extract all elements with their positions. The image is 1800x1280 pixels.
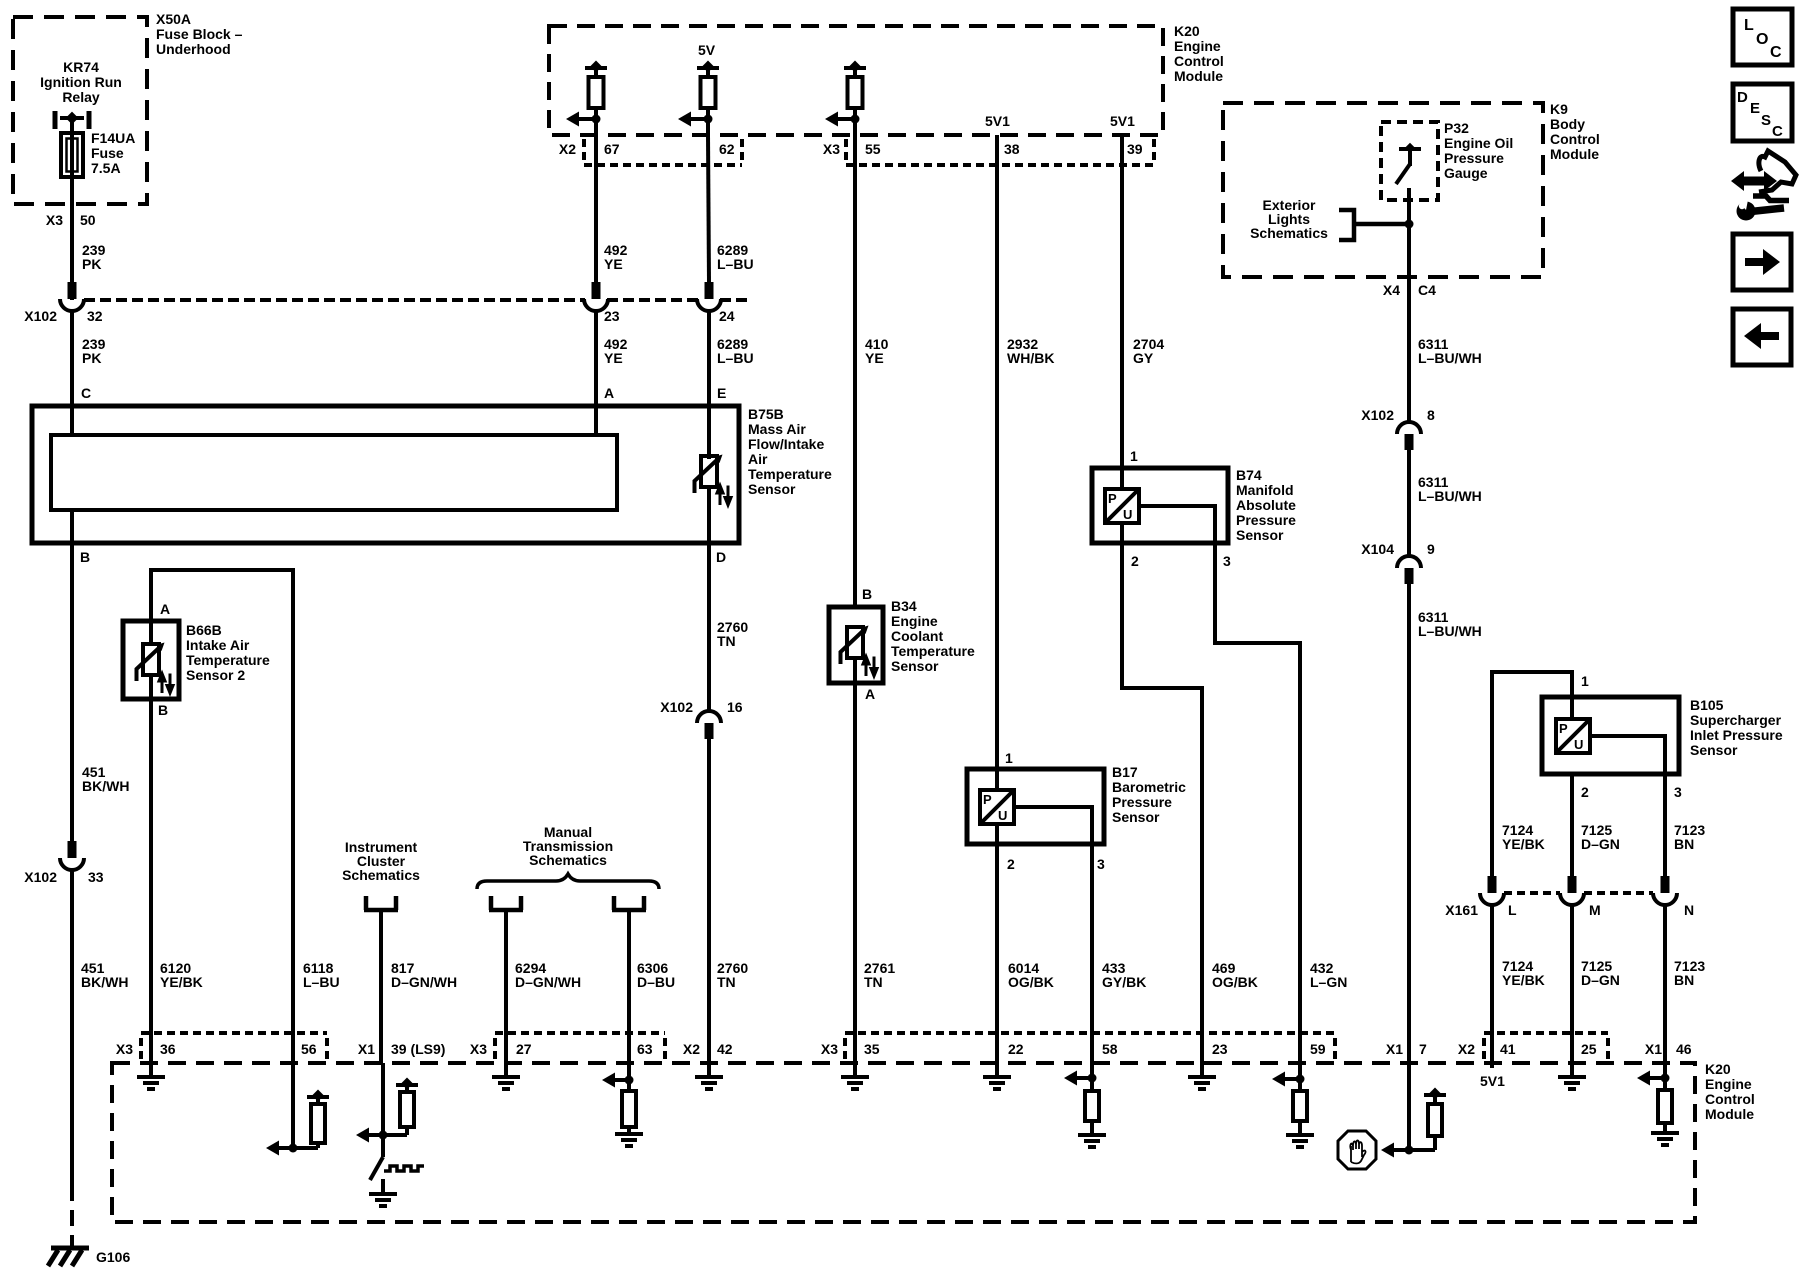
svg-text:X2: X2: [1458, 1041, 1475, 1057]
wire 7123 BN upper: [1663, 774, 1667, 877]
svg-text:X2: X2: [559, 141, 576, 157]
svg-text:Control: Control: [1174, 53, 1224, 69]
wire 451 BK/WH lower: [70, 870, 74, 1185]
ECM pull-up resistor at x=855: [844, 61, 866, 124]
svg-text:42: 42: [717, 1041, 733, 1057]
svg-text:D–GN/WH: D–GN/WH: [391, 974, 457, 990]
svg-text:TN: TN: [717, 974, 736, 990]
wire B17 internal to pin 3: [1014, 807, 1092, 844]
svg-text:X3: X3: [823, 141, 840, 157]
wire 2760 TN lower: [707, 738, 711, 1063]
svg-text:Sensor 2: Sensor 2: [186, 667, 245, 683]
wire B75B pin B stub: [70, 510, 74, 543]
junction dot: [1405, 220, 1414, 229]
svg-text:35: 35: [864, 1041, 880, 1057]
wire 6289 L-BU upper: [708, 135, 709, 283]
svg-text:7: 7: [1419, 1041, 1427, 1057]
resistor and ground at pin 58: [1078, 1063, 1106, 1147]
svg-text:Supercharger: Supercharger: [1690, 712, 1782, 728]
wire 469 OG/BK from B74 pin 2: [1122, 523, 1202, 1063]
svg-text:22: 22: [1008, 1041, 1024, 1057]
svg-text:X104: X104: [1361, 541, 1394, 557]
svg-text:33: 33: [88, 869, 104, 885]
svg-text:D–GN: D–GN: [1581, 972, 1620, 988]
svg-text:59: 59: [1310, 1041, 1326, 1057]
svg-text:X102: X102: [1361, 407, 1394, 423]
wire 432 L-GN from B74 pin 3: [1215, 543, 1300, 1063]
svg-text:5V1: 5V1: [985, 113, 1010, 129]
connector X102 pin 33: [60, 841, 84, 870]
svg-text:L–BU: L–BU: [717, 256, 754, 272]
svg-text:55: 55: [865, 141, 881, 157]
svg-text:D–BU: D–BU: [637, 974, 675, 990]
svg-text:Pressure: Pressure: [1236, 512, 1296, 528]
svg-text:Barometric: Barometric: [1112, 779, 1186, 795]
wire B105 internal to pin 3: [1590, 736, 1665, 774]
ground at pin 25: [1570, 1063, 1574, 1077]
svg-text:X102: X102: [660, 699, 693, 715]
wire 410 YE: [853, 135, 857, 607]
icon arrow right box: [1733, 234, 1791, 290]
wire 2761 TN: [853, 683, 857, 1063]
svg-text:B17: B17: [1112, 764, 1138, 780]
wire 6311 upper: [1407, 300, 1411, 421]
svg-text:39: 39: [1127, 141, 1143, 157]
svg-text:TN: TN: [717, 633, 736, 649]
svg-text:36: 36: [160, 1041, 176, 1057]
svg-text:GY: GY: [1133, 350, 1154, 366]
pull-up, switch and ground at pin 39 LS9: [379, 1063, 419, 1157]
module K20 ECM top dashed box: [549, 26, 1163, 135]
svg-text:B74: B74: [1236, 467, 1262, 483]
svg-text:B66B: B66B: [186, 622, 222, 638]
svg-text:Sensor: Sensor: [1690, 742, 1738, 758]
wire 492 YE upper: [594, 135, 598, 283]
svg-text:7.5A: 7.5A: [91, 160, 121, 176]
svg-text:L–BU/WH: L–BU/WH: [1418, 488, 1482, 504]
svg-text:OG/BK: OG/BK: [1008, 974, 1054, 990]
svg-text:Module: Module: [1550, 146, 1599, 162]
sensor B74 box: [1092, 468, 1228, 543]
svg-text:Underhood: Underhood: [156, 41, 231, 57]
wire thermistor to pin D: [707, 487, 711, 543]
connector X161 pin L: [1480, 876, 1504, 905]
svg-text:PK: PK: [82, 256, 101, 272]
svg-text:Engine: Engine: [891, 613, 938, 629]
wire 6120 YE/BK: [149, 699, 153, 1063]
icon arrow left box: [1733, 309, 1791, 365]
wire B74 internal to pin 3: [1139, 506, 1215, 543]
svg-text:Temperature: Temperature: [891, 643, 975, 659]
wire fuse to X3:50: [70, 177, 74, 300]
svg-text:Engine Oil: Engine Oil: [1444, 135, 1513, 151]
svg-text:38: 38: [1004, 141, 1020, 157]
wire 2760 TN upper: [707, 543, 711, 711]
svg-text:WH/BK: WH/BK: [1007, 350, 1054, 366]
svg-text:YE: YE: [865, 350, 884, 366]
gauge P32 dashed box: [1381, 122, 1438, 200]
svg-text:Flow/Intake: Flow/Intake: [748, 436, 824, 452]
svg-text:C: C: [1772, 123, 1783, 140]
svg-text:Sensor: Sensor: [748, 481, 796, 497]
svg-text:K20: K20: [1705, 1061, 1731, 1077]
svg-text:2: 2: [1007, 856, 1015, 872]
svg-text:L–GN: L–GN: [1310, 974, 1347, 990]
wire 2704 GY: [1120, 135, 1124, 468]
wire 7123 BN lower: [1663, 905, 1667, 1063]
svg-text:U: U: [1574, 737, 1583, 752]
svg-text:39 (LS9): 39 (LS9): [391, 1041, 445, 1057]
wire 6289 L-BU to pin E: [707, 311, 711, 459]
svg-text:U: U: [998, 808, 1007, 823]
ground at pin 27: [504, 1063, 508, 1077]
svg-text:PK: PK: [82, 350, 101, 366]
wire B105 pin 1 loop: [1492, 672, 1572, 877]
svg-text:5V1: 5V1: [1480, 1073, 1505, 1089]
connector X102 pin 23: [584, 282, 608, 311]
svg-text:Control: Control: [1705, 1091, 1755, 1107]
pressure sensor symbol B105: [1570, 697, 1574, 719]
svg-text:YE: YE: [604, 350, 623, 366]
svg-text:58: 58: [1102, 1041, 1118, 1057]
off-page bracket instrument cluster: [364, 896, 398, 910]
svg-text:P: P: [1108, 491, 1117, 506]
svg-text:D–GN: D–GN: [1581, 836, 1620, 852]
svg-text:BN: BN: [1674, 836, 1694, 852]
svg-text:X1: X1: [358, 1041, 375, 1057]
svg-text:OG/BK: OG/BK: [1212, 974, 1258, 990]
wire gauge to X4:C4: [1407, 188, 1411, 300]
svg-text:YE/BK: YE/BK: [1502, 972, 1545, 988]
svg-text:B105: B105: [1690, 697, 1724, 713]
svg-text:B: B: [158, 702, 168, 718]
stop hand symbol: [1338, 1131, 1376, 1169]
svg-text:U: U: [1123, 507, 1132, 522]
sensor B17 box: [967, 769, 1104, 844]
ECM output arrow at x=708: [678, 112, 708, 127]
wire 6311 lower: [1407, 583, 1411, 1150]
svg-text:X1: X1: [1645, 1041, 1662, 1057]
svg-text:41: 41: [1500, 1041, 1516, 1057]
svg-text:D: D: [1737, 89, 1748, 106]
svg-text:3: 3: [1223, 553, 1231, 569]
svg-text:YE: YE: [604, 256, 623, 272]
svg-text:C4: C4: [1418, 282, 1436, 298]
sensor B105 box: [1542, 697, 1679, 774]
svg-text:Control: Control: [1550, 131, 1600, 147]
off-page bracket 6306: [612, 896, 646, 910]
svg-text:63: 63: [637, 1041, 653, 1057]
svg-text:BK/WH: BK/WH: [82, 778, 129, 794]
svg-text:Module: Module: [1705, 1106, 1754, 1122]
svg-text:3: 3: [1674, 784, 1682, 800]
svg-text:1: 1: [1130, 448, 1138, 464]
svg-text:Absolute: Absolute: [1236, 497, 1296, 513]
svg-text:KR74: KR74: [63, 59, 99, 75]
svg-text:S: S: [1761, 112, 1771, 129]
svg-text:BK/WH: BK/WH: [81, 974, 128, 990]
sensor B75B element box: [51, 435, 617, 510]
module K9 BCM dashed box: [1223, 103, 1543, 277]
svg-text:67: 67: [604, 141, 620, 157]
svg-text:32: 32: [87, 308, 103, 324]
svg-text:Engine: Engine: [1705, 1076, 1752, 1092]
svg-text:E: E: [1750, 100, 1760, 117]
svg-text:N: N: [1684, 902, 1694, 918]
svg-text:L–BU/WH: L–BU/WH: [1418, 623, 1482, 639]
svg-text:Schematics: Schematics: [1250, 225, 1328, 241]
icon connector repair: [1731, 151, 1796, 221]
svg-text:Intake Air: Intake Air: [186, 637, 250, 653]
svg-text:D: D: [716, 549, 726, 565]
ground at pin 22: [995, 1063, 999, 1077]
svg-text:Sensor: Sensor: [891, 658, 939, 674]
wire 451 BK/WH upper: [70, 543, 74, 842]
pull-up and stop symbol at pin 7: [1405, 1088, 1447, 1155]
svg-text:YE/BK: YE/BK: [1502, 836, 1545, 852]
wire 433 GY/BK: [1090, 844, 1094, 1063]
svg-text:Module: Module: [1174, 68, 1223, 84]
svg-text:X102: X102: [24, 869, 57, 885]
svg-text:K9: K9: [1550, 101, 1568, 117]
wire 7124 YE/BK lower: [1490, 905, 1494, 1063]
svg-text:X50A: X50A: [156, 11, 191, 27]
wire 6014 OG/BK: [995, 824, 999, 1063]
connector bus X102 dashed line: [84, 298, 748, 302]
svg-text:B: B: [862, 586, 872, 602]
svg-text:23: 23: [604, 308, 620, 324]
gauge symbol P32: [1396, 143, 1421, 184]
switch blade at pin 39 LS9: [370, 1157, 383, 1180]
connector X104 pin 9: [1397, 556, 1421, 584]
wire ECM internal at x=708: [706, 119, 710, 135]
svg-text:X3: X3: [470, 1041, 487, 1057]
svg-text:X3: X3: [116, 1041, 133, 1057]
icon LOC box: [1733, 9, 1792, 65]
module K20 ECM bottom dashed box: [112, 1063, 1695, 1222]
svg-text:B34: B34: [891, 598, 917, 614]
resistor and ground at pin 63: [615, 1063, 643, 1146]
svg-text:F14UA: F14UA: [91, 130, 135, 146]
wire 7124 YE/BK upper: [1490, 875, 1494, 879]
svg-text:L: L: [1508, 902, 1517, 918]
ground at pin 42: [707, 1063, 711, 1077]
resistor and ground at pin 46: [1651, 1063, 1679, 1145]
svg-text:Engine: Engine: [1174, 38, 1221, 54]
5V1 net label at pin 41: [1490, 1063, 1494, 1068]
svg-text:Pressure: Pressure: [1112, 794, 1172, 810]
ECM output arrow at x=855: [825, 112, 855, 127]
svg-text:Inlet Pressure: Inlet Pressure: [1690, 727, 1783, 743]
svg-text:24: 24: [719, 308, 735, 324]
svg-text:27: 27: [516, 1041, 532, 1057]
svg-text:L–BU: L–BU: [303, 974, 340, 990]
ground at pin 36: [149, 1063, 153, 1077]
thermistor B66B: [149, 621, 153, 645]
svg-text:X2: X2: [683, 1041, 700, 1057]
svg-text:8: 8: [1427, 407, 1435, 423]
svg-text:Temperature: Temperature: [748, 466, 832, 482]
svg-text:2: 2: [1131, 553, 1139, 569]
wire 6311 middle: [1407, 449, 1411, 555]
wire 239 PK to B75B pin C: [70, 311, 74, 437]
ground G106: [48, 1248, 89, 1266]
connector X161 pin M: [1560, 876, 1584, 905]
svg-text:M: M: [1589, 902, 1601, 918]
relay KR74 contact: [55, 111, 89, 129]
svg-text:A: A: [160, 601, 170, 617]
svg-text:Gauge: Gauge: [1444, 165, 1488, 181]
wire 7125 D-GN lower: [1570, 905, 1574, 1063]
svg-text:G106: G106: [96, 1249, 130, 1265]
svg-text:62: 62: [719, 141, 735, 157]
svg-text:C: C: [81, 385, 91, 401]
svg-text:GY/BK: GY/BK: [1102, 974, 1146, 990]
thermistor B34: [847, 627, 863, 658]
ECM bottom connector X3 dotted box 35-59: [845, 1033, 1335, 1059]
ground at pin 35: [853, 1063, 857, 1077]
sensor B34 box: [829, 607, 883, 683]
wire 492 YE to pin A: [594, 311, 598, 437]
svg-text:A: A: [604, 385, 614, 401]
svg-text:B: B: [80, 549, 90, 565]
svg-text:L–BU/WH: L–BU/WH: [1418, 350, 1482, 366]
connector X102 pin 24: [697, 282, 721, 311]
brace manual transmission: [477, 874, 659, 889]
svg-text:Schematics: Schematics: [342, 867, 420, 883]
svg-text:E: E: [717, 385, 726, 401]
connector X102 pin 32: [60, 282, 84, 311]
wire ECM internal at x=596: [594, 119, 598, 135]
svg-text:56: 56: [301, 1041, 317, 1057]
svg-text:X4: X4: [1383, 282, 1400, 298]
svg-text:Sensor: Sensor: [1112, 809, 1160, 825]
svg-text:B75B: B75B: [748, 406, 784, 422]
svg-text:Ignition Run: Ignition Run: [40, 74, 122, 90]
ECM top connector X3 dotted box: [846, 139, 1154, 165]
fuse block X50A dashed box: [13, 17, 147, 204]
svg-text:Sensor: Sensor: [1236, 527, 1284, 543]
svg-text:L: L: [1744, 17, 1754, 34]
svg-text:1: 1: [1581, 673, 1589, 689]
svg-text:Manifold: Manifold: [1236, 482, 1294, 498]
svg-text:YE/BK: YE/BK: [160, 974, 203, 990]
ECM pull-up resistor at x=596: [585, 61, 607, 124]
wire dashed continuation to ground: [70, 1185, 74, 1246]
connector X161 dotted bus: [1504, 891, 1653, 895]
icon DESC box: [1733, 84, 1792, 141]
pressure sensor symbol B17: [995, 769, 999, 790]
svg-text:K20: K20: [1174, 23, 1200, 39]
ECM bottom connector X2 dotted box 41-25: [1484, 1033, 1608, 1059]
ECM pull-up resistor at x=708: [697, 61, 719, 124]
ECM output arrow at x=596: [566, 112, 596, 127]
ground at pin 23: [1200, 1063, 1204, 1077]
svg-text:Air: Air: [748, 451, 768, 467]
svg-text:X3: X3: [821, 1041, 838, 1057]
svg-text:BN: BN: [1674, 972, 1694, 988]
svg-text:9: 9: [1427, 541, 1435, 557]
svg-text:3: 3: [1097, 856, 1105, 872]
wire ECM internal at x=855: [853, 119, 857, 135]
svg-text:Pressure: Pressure: [1444, 150, 1504, 166]
svg-text:P: P: [983, 792, 992, 807]
fuse F14UA: [61, 133, 83, 177]
svg-text:X1: X1: [1386, 1041, 1403, 1057]
svg-text:L–BU: L–BU: [717, 350, 754, 366]
svg-text:23: 23: [1212, 1041, 1228, 1057]
off-page bracket 6294: [489, 896, 523, 910]
connector X102 pin 8: [1397, 422, 1421, 450]
sensor B75B outer box: [32, 406, 739, 543]
pull-up and arrow at pin 56: [289, 1063, 330, 1153]
bracket exterior lights: [1339, 210, 1409, 240]
wire 6294 D-GN/WH: [504, 910, 508, 1063]
ECM bottom connector X3 dotted box 27-63: [495, 1033, 665, 1059]
svg-text:50: 50: [80, 212, 96, 228]
svg-text:X102: X102: [24, 308, 57, 324]
resistor and ground at pin 59: [1286, 1063, 1314, 1147]
svg-text:Schematics: Schematics: [529, 852, 607, 868]
svg-text:C: C: [1770, 44, 1782, 61]
wire 6306 D-BU: [627, 910, 631, 1063]
connector X102 pin 16: [697, 711, 721, 739]
svg-text:Relay: Relay: [62, 89, 100, 105]
wire relay to fuse: [70, 118, 74, 135]
svg-text:TN: TN: [864, 974, 883, 990]
ECM bottom connector X3 dotted box 36-56: [141, 1033, 327, 1059]
svg-text:P: P: [1559, 721, 1568, 736]
svg-text:D–GN/WH: D–GN/WH: [515, 974, 581, 990]
svg-text:2: 2: [1581, 784, 1589, 800]
connector X161 pin N: [1653, 876, 1677, 905]
svg-text:1: 1: [1005, 750, 1013, 766]
svg-text:5V: 5V: [698, 42, 716, 58]
wire 817 D-GN/WH: [379, 910, 383, 1063]
svg-text:Temperature: Temperature: [186, 652, 270, 668]
ground at pin 39 LS9: [381, 1179, 385, 1194]
svg-text:16: 16: [727, 699, 743, 715]
svg-text:Body: Body: [1550, 116, 1585, 132]
svg-text:46: 46: [1676, 1041, 1692, 1057]
svg-text:X3: X3: [46, 212, 63, 228]
pressure sensor symbol B74: [1120, 468, 1124, 489]
svg-text:P32: P32: [1444, 120, 1469, 136]
svg-text:5V1: 5V1: [1110, 113, 1135, 129]
svg-text:25: 25: [1581, 1041, 1597, 1057]
wire loop B66B pin A to 6118: [151, 570, 293, 1063]
svg-text:X161: X161: [1445, 902, 1478, 918]
svg-text:Coolant: Coolant: [891, 628, 943, 644]
wire 2932 WH/BK: [995, 135, 999, 769]
svg-text:O: O: [1756, 31, 1768, 48]
svg-text:A: A: [865, 686, 875, 702]
thermistor inside B75B: [701, 456, 717, 487]
sensor B66B box: [123, 621, 179, 699]
wire 7125 D-GN upper: [1570, 774, 1574, 877]
svg-text:Mass Air: Mass Air: [748, 421, 806, 437]
ECM top connector X2 dotted box: [584, 139, 742, 165]
svg-text:Fuse Block –: Fuse Block –: [156, 26, 243, 42]
svg-text:Fuse: Fuse: [91, 145, 124, 161]
